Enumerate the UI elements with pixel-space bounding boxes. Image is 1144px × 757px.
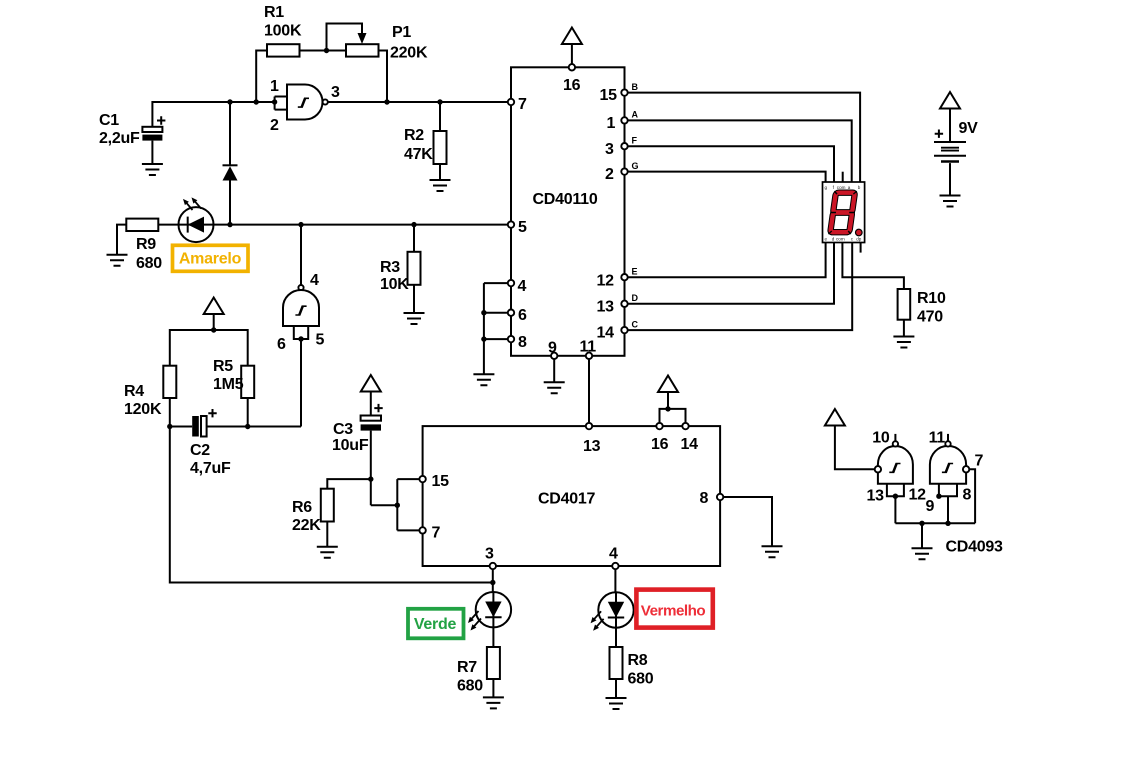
resistor R1 [264,4,302,57]
wire C3 net to pins 15 7 strap [371,504,398,506]
svg-text:8: 8 [963,487,972,504]
svg-text:11: 11 [929,430,946,447]
svg-text:4,7uF: 4,7uF [190,460,231,477]
svg-text:3: 3 [605,141,614,158]
IC CD4017 body [423,426,720,566]
pin 4 CD4017 [609,546,619,570]
svg-text:d: d [832,237,835,242]
op-amp U3A nand schmitt gate [867,430,927,505]
svg-text:14: 14 [681,436,699,453]
ground pin 8 [762,546,783,557]
wire pin 3 to LED verde [492,569,494,592]
wire pin 8 to ground [723,497,772,546]
diode D1 [223,102,238,225]
wire pins 4 6 8 strap to ground [484,283,508,374]
node strap pin6 [481,310,486,315]
wire R5 bottom lead [247,398,249,427]
wire pin 4 to LED vermelho [614,569,616,592]
svg-text:CD40110: CD40110 [533,191,598,208]
wire P1 wiper link with arrow [327,24,367,51]
svg-text:15: 15 [600,87,618,104]
pin 2 CD40110 [605,166,628,183]
pin 1 CD40110 [607,115,628,132]
wire rail to ground [921,523,923,548]
svg-text:100K: 100K [264,23,302,40]
op-amp U3B nand schmitt gate [926,430,984,516]
svg-text:dp: dp [856,237,862,242]
svg-text:8: 8 [700,490,709,507]
wire U3A input tab [887,484,904,497]
pin 7 CD4017 [419,525,440,542]
IC CD40110 body [511,67,625,356]
svg-text:R4: R4 [124,383,144,400]
power arrow CD4017 [658,376,678,409]
label box Amarelo [173,245,249,271]
svg-text:16: 16 [651,436,669,453]
svg-text:13: 13 [583,438,601,455]
svg-text:B: B [632,82,639,92]
wire C2 left lead [170,426,192,428]
pin 8 CD40110 [508,334,527,351]
wire segment B [628,82,860,182]
svg-text:11: 11 [580,339,597,356]
svg-text:680: 680 [628,671,654,688]
svg-text:E: E [632,267,638,277]
node rail ground junction [919,521,924,526]
wire U3B tab down [947,496,949,523]
svg-text:6: 6 [277,336,286,353]
wire R1 to P1 [300,50,347,52]
wire supply to gate U3A input [835,426,875,470]
pin 14 CD40110 [597,325,628,342]
LED D4 vermelho [591,592,634,631]
svg-text:14: 14 [597,325,615,342]
resistor R8 [610,647,654,688]
svg-text:R8: R8 [628,652,648,669]
resistor R9 [126,219,162,272]
svg-text:7: 7 [975,453,984,470]
svg-text:1M5: 1M5 [213,376,244,393]
label box Vermelho [636,590,712,628]
wire R4 net down to CD4017 pin 3 [170,427,493,583]
svg-text:1: 1 [607,115,616,132]
wire R8 top lead [615,628,617,647]
wire U1B output pin 4 lead [301,225,319,289]
power arrow CD4093 [825,409,845,426]
wire pin 11 to CD4017 pin 13 [588,359,590,423]
pin 6 CD40110 [508,307,527,324]
node strap junction [395,503,400,508]
ground R2 [430,180,451,191]
ground R6 [317,547,338,558]
svg-text:10K: 10K [380,276,409,293]
op-amp U1B nand schmitt gate vertical [277,285,325,353]
wire C3 to R6 [327,479,371,489]
potentiometer P1 [346,24,428,62]
pin 4 CD40110 [508,278,527,295]
svg-text:8: 8 [518,334,527,351]
capacitor C3 [332,404,383,454]
svg-text:5: 5 [518,219,527,236]
svg-text:470: 470 [917,309,943,326]
capacitor C2 [190,409,231,477]
node rail U3B junction [945,521,950,526]
svg-text:2: 2 [605,166,614,183]
node U3B tab junction [936,494,941,499]
wire R7 top lead [492,627,494,647]
svg-text:9: 9 [548,340,557,357]
capacitor C1 [99,112,165,147]
pin 16 CD4017 [651,423,669,453]
svg-text:A: A [632,110,639,120]
battery B1 9V [934,120,978,162]
svg-text:3: 3 [485,546,494,563]
pin 14 CD4017 [681,423,699,453]
node P1 right junction [384,99,389,104]
node U1B input junction [298,336,303,341]
pin 16 CD40110 [563,64,581,94]
wire segment D [628,243,834,304]
svg-text:2,2uF: 2,2uF [99,130,140,147]
svg-text:2: 2 [270,117,279,134]
svg-text:C: C [632,320,639,330]
wire segment G [628,161,826,182]
op-amp U1A nand schmitt gate [287,84,340,120]
wire strap pins 15 7 CD4017 [397,479,419,530]
wire display com top stub [842,172,844,182]
ground R9 [107,255,128,266]
svg-text:4: 4 [609,546,618,563]
ground battery [940,196,961,207]
power arrow VCC CD40110 [562,28,582,65]
pin 15 CD4017 [419,473,449,490]
wire amarelo net rail pin 5 [214,224,508,226]
resistor R7 [457,647,500,695]
wire display com to R10 [842,243,904,290]
svg-text:1: 1 [270,78,279,95]
wire R9 to LED [158,224,178,226]
wire C1 top to gate inputs net [152,102,274,127]
wire U3B output pin 7 down [969,469,975,523]
svg-text:a: a [848,185,851,190]
wire segment C [628,243,853,331]
svg-text:CD4017: CD4017 [538,491,596,508]
svg-text:R9: R9 [136,236,156,253]
power arrow R4 R5 rail [204,298,224,331]
svg-text:6: 6 [518,307,527,324]
resistor R10 [898,289,946,326]
pin 13 CD40110 [597,299,628,316]
svg-text:R1: R1 [264,4,284,21]
wire R2 bottom lead [439,164,441,180]
wire battery negative lead [949,163,951,195]
svg-text:3: 3 [331,84,340,101]
wire C2 right to U1B net [207,426,301,428]
svg-text:12: 12 [909,487,927,504]
node R3 junction [411,222,416,227]
svg-text:4: 4 [518,278,527,295]
wire R3 top lead [413,225,415,252]
label box Verde [408,609,464,639]
ground CD4093 [912,548,933,559]
svg-text:G: G [632,161,639,171]
ground pins strap [473,374,494,385]
svg-text:15: 15 [432,473,450,490]
pin 12 CD40110 [597,273,628,290]
wire R3 bottom lead [413,285,415,313]
svg-text:D: D [632,293,639,303]
node C2 left junction [167,424,172,429]
svg-text:P1: P1 [392,24,411,41]
svg-text:120K: 120K [124,401,162,418]
svg-text:R6: R6 [292,499,312,516]
wire U1B input tab pins 5 6 [294,326,308,339]
svg-text:12: 12 [597,273,615,290]
pin 7 CD40110 [508,96,527,113]
node gate U1B output junction [298,222,303,227]
svg-text:C2: C2 [190,442,210,459]
svg-text:e: e [825,237,828,242]
wire CD4093 bottom rail [895,522,975,524]
LED D3 verde [468,592,511,631]
svg-text:R7: R7 [457,659,477,676]
wire R7 bottom lead [492,679,494,697]
svg-text:22K: 22K [292,517,321,534]
node strap pin16 junction [665,406,670,411]
svg-text:9V: 9V [959,120,979,137]
node diode bottom junction [227,222,232,227]
ground R8 [606,698,627,709]
resistor R4 [124,366,176,418]
wire U1B inputs down to C2 net [300,339,302,427]
svg-text:com: com [836,237,845,242]
pin 15 CD40110 [600,87,628,104]
label CD4093 [946,539,1004,556]
node U3A tab junction [893,494,898,499]
wire C1 bottom lead [151,141,153,164]
wire R2 top lead [439,102,441,131]
svg-text:9: 9 [926,498,935,515]
wire U3A tab down [894,496,896,523]
svg-text:680: 680 [136,255,162,272]
ground R3 [404,313,425,324]
wire R1 left branch [256,51,267,103]
node C2 right junction [245,424,250,429]
pin 9 CD40110 [548,340,557,359]
ground C1 [142,164,163,175]
svg-text:g: g [825,185,828,190]
resistor R5 [213,358,254,398]
svg-text:47K: 47K [404,146,433,163]
node pin 3 net junction [490,580,495,585]
wire display dp stub [860,243,862,253]
svg-text:Amarelo: Amarelo [179,251,242,268]
power arrow battery 9V [940,92,960,142]
node diode top junction [227,99,232,104]
pin 3 CD40110 [605,141,628,158]
svg-text:C3: C3 [333,421,353,438]
wire segment F [628,136,834,183]
gate U1A input bracket pins 1 2 [270,78,287,134]
svg-text:4: 4 [310,272,319,289]
svg-text:R2: R2 [404,127,424,144]
wire R9 left lead to ground [117,225,126,255]
node strap pin8 [481,336,486,341]
svg-text:CD4093: CD4093 [946,539,1004,556]
pin 3 CD4017 [485,546,496,570]
svg-text:Vermelho: Vermelho [641,603,706,620]
svg-text:220K: 220K [390,45,428,62]
wire P1 right to output net [379,51,388,103]
wire C3 bottom lead [370,431,372,506]
pin 11 CD40110 [580,339,597,359]
pin 13 CD4017 [583,423,601,455]
svg-text:7: 7 [518,96,527,113]
wire R10 bottom lead [903,320,905,337]
node P1 wiper branch junction [324,48,329,53]
wire U1A output net to pin 7 [328,101,508,103]
svg-text:b: b [858,185,861,190]
wire U3B input tab [939,484,957,497]
svg-text:F: F [632,136,638,146]
svg-text:C1: C1 [99,112,119,129]
ground R7 [483,697,504,708]
wire segment E [628,243,826,278]
wire R4 bottom lead [169,398,171,427]
wire R8 bottom lead [615,679,617,698]
resistor R6 [292,489,334,534]
node R1 left junction [254,99,259,104]
wire pin 9 to ground [553,359,555,382]
svg-text:R3: R3 [380,259,400,276]
svg-text:R5: R5 [213,358,233,375]
ground R10 [893,337,914,348]
wire pins 16 14 strap [660,409,686,423]
LED D2 amarelo [179,197,214,242]
svg-text:10uF: 10uF [332,437,369,454]
ground pin 9 [544,382,565,393]
resistor R3 [380,252,421,293]
svg-text:Verde: Verde [414,616,457,633]
svg-text:13: 13 [867,488,885,505]
7-segment display U2 [823,182,865,243]
svg-text:10: 10 [872,430,890,447]
wire supply rail to R4 R5 [170,330,248,366]
pin 5 CD40110 [508,219,527,236]
node supply rail junction [211,327,216,332]
pin 8 CD4017 [700,490,724,507]
svg-text:R10: R10 [917,290,946,307]
svg-text:com: com [837,185,846,190]
wire R6 bottom lead [326,522,328,547]
wire segment A [628,110,852,183]
node R2 junction [437,99,442,104]
svg-text:5: 5 [316,332,325,349]
power arrow C3 [361,375,381,416]
resistor R2 [404,127,447,164]
svg-text:13: 13 [597,299,615,316]
node C3 R6 junction [368,476,373,481]
svg-text:16: 16 [563,77,581,94]
svg-text:7: 7 [432,525,441,542]
svg-text:680: 680 [457,678,483,695]
